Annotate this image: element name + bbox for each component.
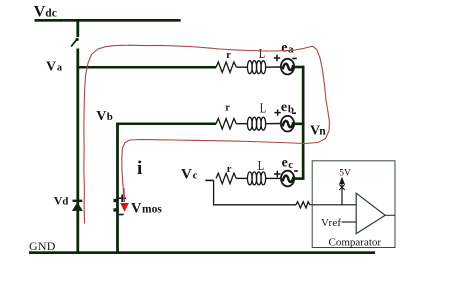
op-amp comparator triangle <box>356 193 385 233</box>
wire: second bus (Vb leg) <box>116 123 119 255</box>
minus sign of source eb <box>292 112 296 114</box>
svg-text:GND: GND <box>29 239 56 253</box>
plus sign at Vmos <box>119 195 126 203</box>
svg-text:e: e <box>282 156 288 171</box>
svg-text:Comparator: Comparator <box>329 237 382 249</box>
svg-text:e: e <box>281 41 287 56</box>
inductor L (phase A) <box>247 61 265 74</box>
svg-text:e: e <box>281 100 287 115</box>
source ec circle <box>281 171 294 187</box>
svg-text:b: b <box>107 111 113 123</box>
wire: phase A line from Va node <box>77 66 216 69</box>
svg-text:V: V <box>46 60 56 75</box>
wire: ec to Vn bus <box>293 177 304 180</box>
plus sign of source ea <box>274 55 280 61</box>
wire: ea to Vn bus <box>293 66 304 69</box>
minus sign at Vmos <box>118 214 123 216</box>
red arrowhead at Vmos (end of current trace) <box>120 203 129 212</box>
wire: Vc down branch to comparator input <box>214 180 296 204</box>
source ea circle <box>281 59 294 75</box>
diode Vd triangle <box>72 202 83 211</box>
wire: comparator output <box>385 214 395 216</box>
resistor comparator input <box>296 202 310 208</box>
wire: left bus upper segment <box>76 19 79 37</box>
inductor L (phase B) <box>247 117 265 130</box>
current trace i (red freehand loop) <box>84 45 330 223</box>
wire: eb to Vn bus <box>293 123 304 126</box>
svg-text:mos: mos <box>142 203 162 215</box>
GND rail <box>29 251 375 254</box>
svg-text:a: a <box>288 44 294 56</box>
minus sign of source ec <box>294 170 298 172</box>
svg-text:V: V <box>34 4 46 21</box>
minus sign of source ea <box>292 58 297 60</box>
svg-text:5V: 5V <box>339 168 351 178</box>
pull-up arrow to 5V <box>341 184 343 205</box>
svg-text:Vref: Vref <box>321 217 341 229</box>
svg-text:i: i <box>137 158 142 179</box>
svg-text:r: r <box>227 164 232 175</box>
inductor L (phase C) <box>247 172 265 185</box>
diode Vd cathode bar <box>73 200 83 202</box>
wire: Vref to triangle <box>342 221 357 223</box>
wire <box>266 177 282 179</box>
plus sign of source ec <box>274 171 280 177</box>
svg-text:d: d <box>62 196 68 208</box>
wire: into comparator <box>310 204 356 206</box>
wire: Vdc top rail <box>35 19 181 22</box>
node Vc terminal tick <box>205 179 213 181</box>
resistor r (phase A) <box>216 62 236 73</box>
svg-text:L: L <box>260 100 266 115</box>
mosfet Vmos nub upper <box>113 199 117 202</box>
svg-text:r: r <box>225 103 230 114</box>
wire <box>236 66 247 68</box>
wire <box>236 123 247 125</box>
comparator box U1 <box>312 161 395 248</box>
node Vn bus <box>302 66 305 180</box>
mosfet Vmos nub lower <box>113 208 117 211</box>
plus sign of source eb <box>274 109 280 115</box>
svg-text:c: c <box>193 169 198 181</box>
svg-text:L: L <box>258 158 264 173</box>
wire: left bus lower segment <box>76 49 79 255</box>
wire: phase B line <box>116 123 216 126</box>
svg-text:V: V <box>96 109 106 124</box>
svg-text:n: n <box>319 126 326 138</box>
source eb circle <box>281 116 294 132</box>
svg-text:dc: dc <box>45 7 57 19</box>
svg-text:c: c <box>288 159 293 171</box>
wire <box>266 123 282 125</box>
wire <box>266 66 282 68</box>
wire red shaft above Vmos arrow <box>123 188 125 202</box>
resistor r (phase B) <box>216 119 236 130</box>
svg-text:a: a <box>57 63 62 74</box>
switch S1 blade <box>71 38 77 46</box>
svg-text:V: V <box>181 166 192 182</box>
resistor r (phase C) <box>216 173 236 184</box>
wire <box>236 177 247 179</box>
svg-text:V: V <box>131 201 142 217</box>
svg-text:r: r <box>226 50 231 61</box>
svg-text:L: L <box>259 46 265 61</box>
